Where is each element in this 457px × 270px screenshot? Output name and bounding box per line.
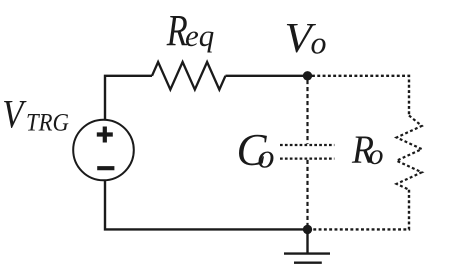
resistor R_eq: [152, 62, 225, 90]
dotted wire Ro bottom to ground node: [312, 190, 409, 230]
svg-text:o: o: [369, 138, 384, 171]
resistor Ro zigzag (dotted): [397, 116, 422, 190]
svg-text:V: V: [2, 93, 27, 137]
svg-text:eq: eq: [185, 18, 214, 53]
dotted wire node to Ro top: [312, 76, 409, 116]
voltage source V_TRG: [73, 120, 134, 181]
dashed wire node Vo to capacitor: [306, 80, 308, 144]
svg-text:o: o: [311, 24, 327, 60]
plus sign: [97, 127, 113, 143]
svg-text:o: o: [258, 138, 275, 175]
wire source bottom to ground wire: [105, 180, 308, 229]
dashed wire capacitor to ground node: [306, 160, 308, 226]
ground bar 1: [284, 252, 330, 254]
node ground dot: [303, 225, 312, 234]
minus sign: [97, 166, 114, 170]
ground stem: [306, 229, 308, 252]
capacitor Co top plate: [280, 144, 334, 146]
node Vo dot: [303, 71, 312, 80]
capacitor Co bottom plate: [280, 157, 334, 159]
wire top-left (source top to resistor): [105, 76, 152, 120]
svg-text:TRG: TRG: [26, 110, 69, 137]
ground bar 2: [294, 262, 322, 264]
wire resistor to node Vo: [225, 75, 307, 77]
